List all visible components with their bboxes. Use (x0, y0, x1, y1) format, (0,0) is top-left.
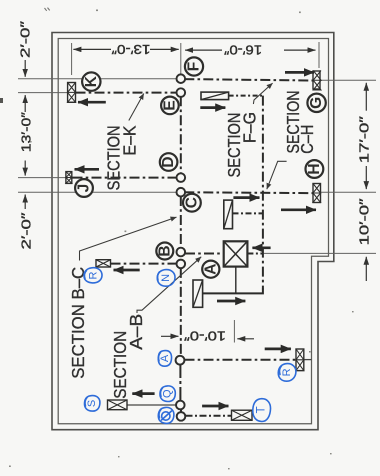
dim arrow bottom 10ft right (161, 335, 179, 337)
main duct vertical segment 1 (180, 96, 182, 174)
wire transition R2 to riser duct (233, 212, 263, 214)
grille tag C (183, 194, 201, 212)
scan speck (96, 10, 98, 12)
junction node 5 (177, 248, 186, 257)
annotation Q near node 8 (160, 386, 175, 402)
damper J (66, 172, 72, 184)
main duct vertical segment 3 (180, 268, 182, 356)
annotation N near node B (157, 270, 175, 287)
main duct vertical segment 2 (180, 196, 182, 248)
flow arrow into damper R (265, 348, 291, 351)
flow arrow at transition R1 (200, 106, 225, 109)
svg-text:S: S (86, 400, 98, 407)
svg-text:N: N (160, 274, 172, 282)
junction node 7 (176, 356, 185, 365)
flow arrow into damper G (285, 71, 314, 74)
dim arrow top 13ft right (150, 48, 179, 50)
dim arrow right 17ft down (365, 166, 367, 189)
leader SECTION F-G (253, 83, 272, 104)
svg-text:D: D (160, 156, 177, 167)
svg-text:B: B (156, 245, 173, 256)
dim arrow left 13ft up (24, 95, 26, 112)
extension line right chain H row (321, 191, 376, 193)
flow arrow into damper B (114, 269, 140, 272)
dim arrow left 2ft-b up (24, 195, 26, 210)
annotation O-slash near node 9 (158, 407, 174, 423)
transition R2 vertical (224, 200, 233, 229)
svg-text:10′-0″: 10′-0″ (184, 329, 226, 344)
main duct vertical segment 5 (180, 409, 182, 413)
svg-text:R: R (87, 271, 99, 279)
wire damper B to node (111, 263, 178, 265)
svg-text:E: E (161, 100, 178, 110)
wire diffuser box stem (235, 267, 237, 294)
damper K (68, 83, 76, 103)
damper T (232, 410, 253, 420)
svg-text:SECTION B–C: SECTION B–C (68, 267, 88, 379)
grille tag D (160, 153, 178, 171)
dim arrow bottom 10ft left (237, 338, 254, 340)
extension line top-dim left vertical (71, 43, 73, 75)
svg-text:H: H (306, 163, 323, 174)
leader SECTION C-H (267, 161, 287, 189)
svg-text:17′-0″: 17′-0″ (356, 116, 371, 163)
grille tag K (82, 72, 100, 90)
wire transition R1 to riser duct (229, 95, 262, 97)
svg-text:J: J (76, 184, 93, 193)
junction node 2 (177, 88, 186, 97)
svg-text:F: F (186, 62, 203, 71)
flow arrow into damper T (202, 405, 228, 408)
svg-text:A: A (159, 354, 171, 362)
leader SECTION A-B (137, 257, 201, 313)
riser duct vertical (262, 96, 264, 290)
junction node 9 (177, 412, 186, 421)
svg-text:G: G (308, 97, 325, 109)
grille tag F (185, 57, 203, 75)
flow arrow at damper Q (132, 392, 154, 395)
annotation A near node R (158, 351, 171, 367)
extension line F-G row left (18, 78, 177, 80)
svg-text:Q: Q (162, 389, 174, 398)
dim arrow right 17ft up (365, 83, 367, 111)
extension line right chain step row (264, 252, 376, 254)
svg-text:A: A (202, 264, 219, 275)
building inner wall (58, 39, 328, 424)
extension line bottom-dim vertical (233, 320, 235, 343)
damper G (313, 71, 321, 91)
svg-text:C: C (183, 197, 200, 208)
section line R (185, 359, 297, 361)
building outer wall (52, 33, 334, 430)
flow arrow into diffuser box (252, 246, 270, 249)
grille tag E (161, 97, 179, 115)
svg-text:K: K (83, 75, 100, 87)
svg-text:16′-0″: 16′-0″ (224, 42, 262, 57)
svg-text:13′-0″: 13′-0″ (111, 42, 150, 57)
dim arrow left 2ft down (24, 60, 26, 77)
svg-text:A–B: A–B (126, 314, 146, 350)
flow arrow at riser elbow (217, 300, 245, 303)
section line C-H (184, 191, 313, 194)
extension line right chain G row (320, 79, 376, 81)
annotation R near damper B (84, 268, 102, 283)
wire diffuser box to riser duct (247, 253, 263, 255)
annotation S near wall corner (84, 396, 99, 412)
damper B (96, 260, 111, 267)
wire B row to diffuser box (185, 253, 224, 255)
section line T (186, 415, 232, 417)
svg-text:C–H: C–H (297, 125, 317, 154)
diffuser box A (224, 241, 248, 266)
extension line C row left (18, 191, 76, 193)
damper R (296, 349, 304, 371)
extension line J row left (18, 177, 66, 179)
grille tag H (306, 160, 324, 178)
svg-text:F–G: F–G (239, 112, 259, 143)
main duct vertical segment 4 (179, 364, 181, 401)
transition R1 horizontal (201, 92, 229, 100)
annotation R near damper R (278, 364, 296, 382)
dim arrow top 16ft right (284, 49, 316, 51)
riser duct elbow (203, 289, 263, 294)
dim arrow top 16ft left (185, 49, 222, 51)
section line E-K (76, 92, 178, 94)
extension line C row left part2 (92, 191, 177, 193)
leader SECTION E-K (129, 94, 144, 121)
svg-text:10′-0″: 10′-0″ (356, 198, 371, 245)
flow arrow into damper H (281, 208, 316, 211)
section line J-D (73, 177, 178, 179)
damper Q bottom-left (108, 400, 128, 410)
flow arrow at transition R2 (233, 196, 259, 199)
junction node 1 (177, 74, 186, 83)
flow arrow into damper J (75, 168, 100, 171)
junction node 8 (176, 401, 185, 410)
flow arrow into damper K (78, 101, 106, 104)
junction node 4 (177, 188, 186, 197)
grille tag A (202, 261, 219, 278)
transition R3 vertical (193, 280, 203, 307)
junction node 6 (177, 260, 186, 269)
wire stub damper R to wall (304, 359, 312, 361)
grille tag G (307, 94, 325, 112)
svg-text:E–K: E–K (120, 125, 140, 155)
svg-text:2′-0″: 2′-0″ (17, 21, 32, 58)
svg-text:13′-0″: 13′-0″ (18, 112, 33, 152)
grille tag B (156, 243, 173, 260)
extension line top-dim right vertical (318, 42, 320, 68)
grille tag J (75, 179, 93, 197)
wire grille line bottom-left (127, 404, 177, 406)
damper H (313, 184, 321, 203)
leader SECTION B-C (80, 217, 177, 260)
extension line E-K row left (18, 92, 68, 94)
annotation T near damper T (253, 399, 271, 422)
section line F-G (184, 79, 313, 80)
dim arrow top 13ft left (73, 48, 111, 50)
svg-text:R: R (281, 368, 293, 376)
dim arrow left 13ft down (24, 161, 26, 176)
svg-text:T: T (256, 406, 268, 413)
dim arrow right 10ft up (365, 257, 367, 281)
svg-text:2′-0″: 2′-0″ (18, 212, 33, 249)
extension line top-dim center vertical (180, 43, 182, 75)
junction node 3 (177, 173, 186, 182)
